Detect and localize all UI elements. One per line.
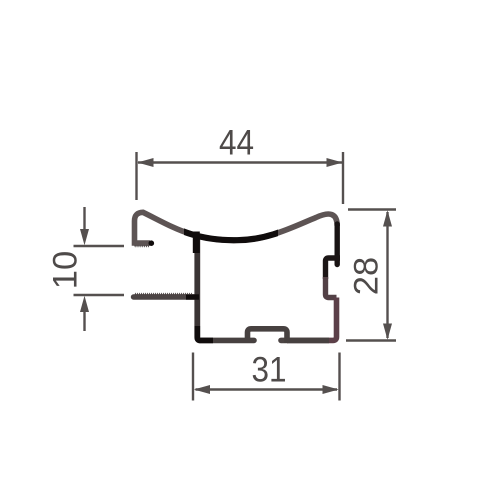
right wall lower (287, 298, 337, 341)
dark overlays (jpeg-dark areas) (143, 212, 316, 340)
dimension 28 (right) (346, 210, 396, 341)
ext line left (192, 353, 194, 401)
left bottom corner dark (197, 326, 213, 340)
groove right side upper (326, 258, 341, 279)
bottom wall right run (gray part) (287, 338, 329, 344)
leg dark at wall junction (186, 294, 199, 299)
arrowhead left (137, 158, 153, 167)
left inner wall (197, 234, 200, 340)
arrowhead top (383, 210, 392, 226)
svg-text:31: 31 (251, 351, 286, 390)
ext line right (338, 353, 340, 401)
ext line bottom (346, 339, 396, 341)
right wall upper with lip (335, 224, 340, 265)
profile outline: aluminium extrusion cross-section (134, 212, 341, 343)
svg-text:44: 44 (219, 124, 254, 163)
arrowhead right (327, 158, 343, 167)
dim line (386, 212, 388, 338)
ext line left (135, 152, 137, 200)
trough dark segment (143, 212, 316, 240)
dimension 10 (left) (74, 207, 125, 331)
bottom wall left run (201, 338, 255, 344)
left wall dark top (193, 232, 200, 254)
svg-text:28: 28 (347, 257, 385, 295)
bottom wall right flange tip (281, 338, 287, 344)
dim line (138, 161, 342, 163)
arrowhead right (323, 385, 339, 394)
hook top-left with stub and top saddle curve (135, 212, 338, 243)
screw-port hat (248, 329, 288, 343)
leader above, arrow down (83, 207, 85, 231)
dimension 44 (top) (137, 152, 344, 204)
middle serrated leg (134, 294, 196, 299)
arrowhead bottom (383, 324, 392, 340)
arrowhead left (194, 385, 210, 394)
dimension 31 (bottom) (193, 353, 340, 401)
bead at stub tip (149, 240, 155, 246)
ext line top (74, 245, 125, 247)
dim line (196, 388, 338, 390)
leader below, arrow up (83, 310, 85, 331)
ext line right (342, 152, 344, 204)
svg-text:10: 10 (47, 251, 85, 289)
ext line top (348, 208, 396, 210)
stub serration teeth (bottom edge) (134, 245, 149, 247)
groove right side lower (326, 277, 337, 298)
ext line bottom (74, 294, 125, 296)
leg serration teeth (top edge) (135, 293, 193, 295)
